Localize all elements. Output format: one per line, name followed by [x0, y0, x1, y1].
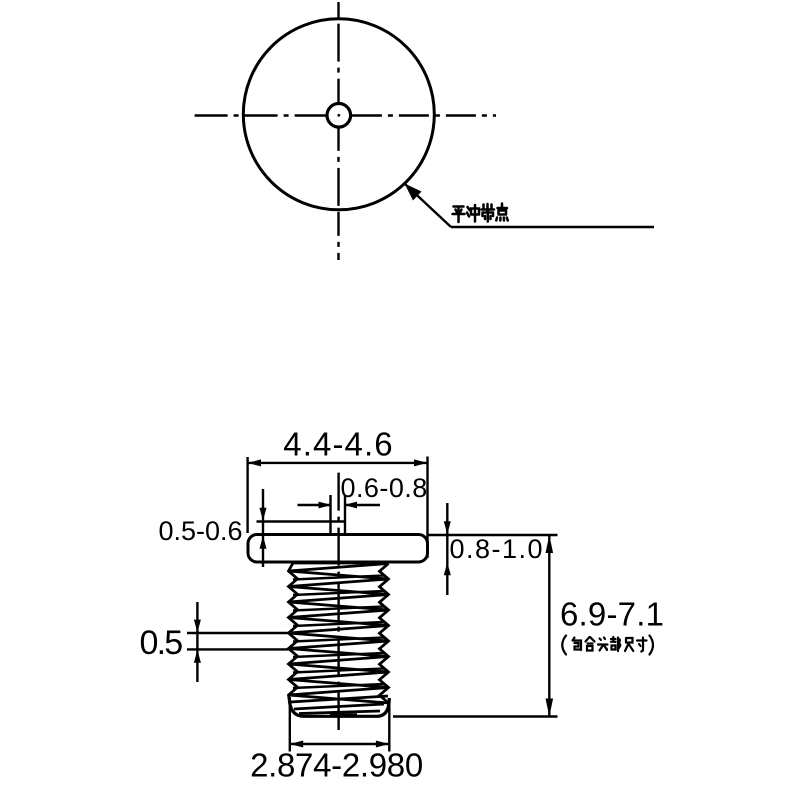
svg-text:4.4-4.6: 4.4-4.6 — [283, 426, 393, 463]
svg-text:0.6-0.8: 0.6-0.8 — [341, 473, 428, 503]
svg-text:0.5-0.6: 0.5-0.6 — [159, 516, 243, 546]
svg-text:0.5: 0.5 — [140, 624, 183, 662]
svg-text:2.874-2.980: 2.874-2.980 — [250, 747, 423, 784]
svg-text:6.9-7.1: 6.9-7.1 — [560, 596, 664, 633]
svg-text:0.8-1.0: 0.8-1.0 — [450, 534, 545, 564]
